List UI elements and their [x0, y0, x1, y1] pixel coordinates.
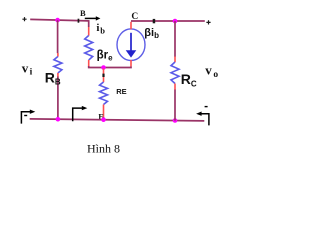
svg-text:b: b — [100, 25, 105, 35]
wire E' horizontal (bre bottom to source bottom) — [89, 66, 131, 68]
wire top-left (vi+ to node B corner) — [30, 19, 88, 21]
tick on top-right wire — [153, 19, 156, 23]
svg-text:v: v — [22, 60, 29, 75]
resistor RB column: wire from top node down — [57, 20, 59, 53]
current arrow ib — [85, 16, 101, 20]
svg-text:v: v — [205, 62, 212, 77]
lead red top of RE — [103, 69, 105, 83]
terminal arrow mid (emitter ref) — [73, 106, 88, 121]
resistor RE zigzag — [100, 82, 108, 105]
wire RE to rail — [103, 117, 105, 120]
node B tick — [78, 19, 80, 23]
resistor RB zigzag — [54, 57, 62, 74]
lead red top of bre — [88, 27, 90, 36]
terminal arrow left (vi-) — [21, 110, 35, 124]
current source arrow — [126, 33, 137, 58]
current source circle — [117, 29, 145, 61]
wire top-right (C node to vo+) — [131, 20, 205, 22]
lead red top of RB — [57, 53, 59, 57]
resistor RC column: wire from top node down — [174, 21, 176, 57]
lead red bottom of RE — [103, 105, 105, 118]
svg-text:i: i — [96, 22, 99, 34]
resistor bre (beta re) zigzag — [85, 36, 93, 61]
lead red bottom of RC — [174, 84, 176, 90]
node dot on top-left wire — [55, 18, 60, 23]
terminal plus right — [206, 20, 210, 24]
svg-text:i: i — [30, 67, 33, 77]
lead red bottom of RB — [57, 73, 59, 77]
bottom rail wire — [30, 119, 205, 121]
rail node dot RE — [101, 117, 106, 122]
node dot E' — [101, 65, 106, 70]
lead red source top — [130, 22, 132, 30]
wire RC to rail — [174, 90, 176, 121]
lead red bottom of bre — [88, 60, 90, 66]
wire RB to rail — [57, 77, 59, 120]
rail node dot RC — [173, 118, 178, 123]
terminal plus left — [22, 17, 26, 21]
svg-text:RE: RE — [116, 87, 126, 96]
tick on RE lead — [102, 74, 104, 77]
lead red top of RC — [174, 57, 176, 63]
node dot RC top — [173, 19, 178, 24]
svg-text:B: B — [80, 8, 86, 18]
terminal arrow right (vo-) — [196, 106, 209, 126]
svg-text:o: o — [213, 70, 218, 80]
rail node dot RB — [56, 117, 61, 122]
lead red source bottom — [130, 60, 132, 66]
resistor RC zigzag — [171, 62, 179, 84]
svg-text:Hình 8: Hình 8 — [87, 141, 120, 155]
wire corner at B down to bre — [88, 20, 90, 27]
